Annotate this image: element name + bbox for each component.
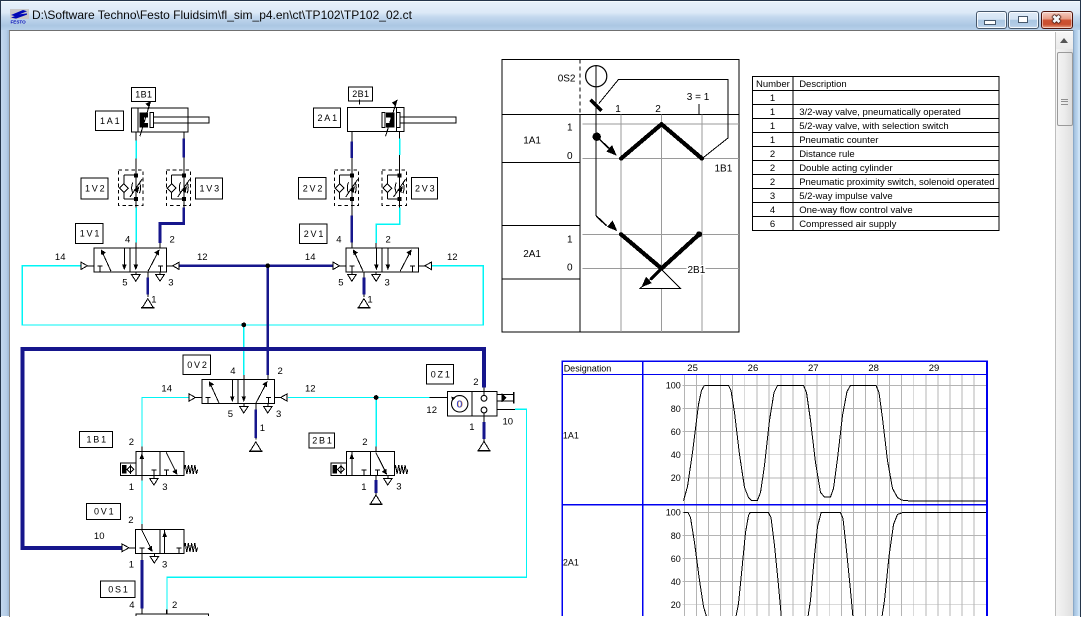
svg-text:1A1: 1A1 [523,135,541,146]
svg-text:2: 2 [769,163,774,174]
svg-text:1: 1 [769,135,774,146]
svg-text:1: 1 [615,103,621,114]
svg-text:1: 1 [769,107,774,118]
svg-text:1: 1 [769,121,774,132]
svg-text:1: 1 [128,559,133,570]
svg-text:1: 1 [566,234,572,245]
svg-text:12: 12 [197,252,208,263]
svg-text:40: 40 [670,450,680,460]
svg-text:2V3: 2V3 [414,183,435,193]
svg-text:2: 2 [362,437,367,448]
svg-text:1: 1 [367,294,372,305]
svg-text:1: 1 [566,122,572,133]
svg-text:2: 2 [172,600,177,611]
svg-text:5/2-way impulse valve: 5/2-way impulse valve [799,191,892,202]
svg-text:20: 20 [670,600,680,610]
svg-text:2A1: 2A1 [562,557,578,567]
svg-text:2: 2 [169,234,174,245]
svg-text:1B1: 1B1 [714,163,732,174]
svg-text:2A1: 2A1 [317,113,338,123]
svg-text:25: 25 [687,363,698,374]
svg-text:14: 14 [54,252,65,263]
svg-text:4: 4 [336,234,341,245]
svg-text:10: 10 [502,416,513,427]
svg-text:3: 3 [162,482,167,493]
svg-text:3: 3 [276,409,281,420]
svg-text:1A1: 1A1 [99,115,120,125]
svg-text:2: 2 [655,103,661,114]
svg-text:0V2: 0V2 [187,359,208,369]
svg-text:0V1: 0V1 [93,506,114,516]
svg-text:2B1: 2B1 [687,264,705,275]
svg-text:2B1: 2B1 [312,435,333,445]
svg-text:Description: Description [799,79,847,90]
svg-text:2: 2 [769,177,774,188]
svg-text:1: 1 [469,422,474,433]
svg-text:0Z1: 0Z1 [430,369,451,379]
svg-text:4: 4 [125,234,130,245]
svg-text:14: 14 [304,252,315,263]
svg-text:1: 1 [361,482,366,493]
svg-text:60: 60 [670,426,680,436]
svg-text:5/2-way valve, with selection: 5/2-way valve, with selection switch [799,121,948,132]
svg-text:Compressed air supply: Compressed air supply [799,219,896,230]
svg-text:2: 2 [385,234,390,245]
svg-text:10: 10 [93,531,104,542]
svg-text:0S2: 0S2 [557,73,575,84]
svg-text:2: 2 [769,149,774,160]
svg-text:80: 80 [670,530,680,540]
svg-text:3 = 1: 3 = 1 [686,92,709,103]
svg-text:2: 2 [128,437,133,448]
svg-text:Number: Number [756,79,790,90]
svg-text:1: 1 [259,423,264,434]
svg-text:100: 100 [665,380,680,390]
svg-text:One-way flow control valve: One-way flow control valve [799,205,913,216]
svg-text:28: 28 [868,363,879,374]
svg-text:4: 4 [129,600,134,611]
svg-text:1: 1 [128,482,133,493]
svg-text:5: 5 [122,277,127,288]
svg-text:4: 4 [230,366,235,377]
svg-text:40: 40 [670,576,680,586]
svg-text:12: 12 [305,383,316,394]
svg-text:60: 60 [670,553,680,563]
svg-text:3: 3 [168,277,173,288]
svg-text:2A1: 2A1 [523,249,541,260]
svg-text:2: 2 [128,515,133,526]
svg-text:Distance rule: Distance rule [799,149,854,160]
svg-text:12: 12 [447,252,458,263]
svg-text:1V3: 1V3 [199,183,220,193]
svg-text:6: 6 [769,219,774,230]
svg-text:5: 5 [227,409,232,420]
svg-text:20: 20 [670,473,680,483]
svg-text:3: 3 [162,559,167,570]
svg-text:Designation: Designation [563,363,611,373]
svg-text:100: 100 [665,507,680,517]
svg-text:12: 12 [426,405,437,416]
svg-text:2: 2 [277,366,282,377]
svg-text:1: 1 [151,294,156,305]
svg-text:Pneumatic proximity switch, so: Pneumatic proximity switch, solenoid ope… [799,177,994,188]
svg-text:3: 3 [396,481,401,492]
svg-text:26: 26 [747,363,758,374]
svg-text:29: 29 [928,363,939,374]
svg-text:0: 0 [566,150,572,161]
svg-text:1V2: 1V2 [84,183,105,193]
svg-text:1B1: 1B1 [86,434,107,444]
svg-text:14: 14 [161,383,172,394]
svg-text:2B1: 2B1 [352,89,369,99]
svg-text:3: 3 [769,191,774,202]
svg-text:3/2-way valve, pneumatically o: 3/2-way valve, pneumatically operated [799,107,961,118]
svg-text:1B1: 1B1 [135,89,152,99]
svg-text:0: 0 [456,399,462,410]
svg-text:2: 2 [473,377,478,388]
svg-text:5: 5 [338,277,343,288]
svg-text:4: 4 [769,205,774,216]
svg-text:1V1: 1V1 [79,228,100,238]
svg-text:80: 80 [670,403,680,413]
svg-text:3: 3 [384,277,389,288]
svg-text:2V1: 2V1 [303,228,324,238]
svg-text:Double acting cylinder: Double acting cylinder [799,163,892,174]
svg-text:27: 27 [808,363,819,374]
svg-text:Pneumatic counter: Pneumatic counter [799,135,878,146]
svg-text:1: 1 [769,93,774,104]
svg-text:1A1: 1A1 [562,430,578,440]
svg-text:0: 0 [566,262,572,273]
svg-text:2V2: 2V2 [302,183,323,193]
svg-text:0S1: 0S1 [108,584,129,594]
